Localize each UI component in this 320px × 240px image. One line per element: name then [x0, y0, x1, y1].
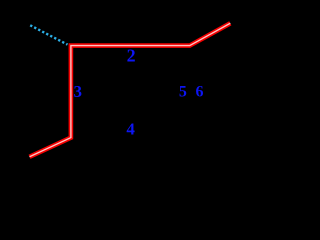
- svg-text:5: 5: [179, 84, 187, 101]
- red piecewise curve: glow layer: [30, 23, 231, 157]
- dashed blue segment: [30, 25, 67, 44]
- red curve light core: [30, 23, 231, 157]
- svg-text:3: 3: [74, 82, 83, 101]
- svg-text:6: 6: [196, 84, 204, 101]
- svg-text:4: 4: [126, 120, 135, 139]
- svg-text:2: 2: [127, 45, 136, 65]
